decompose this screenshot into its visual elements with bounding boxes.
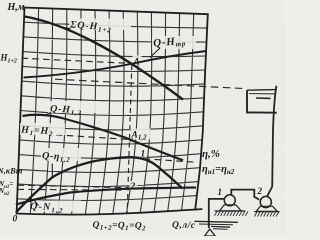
dashed level H1+2 to point A (22, 58, 131, 63)
foot valve / strainer triangle (205, 229, 216, 236)
subtle scan noise overlay (0, 0, 1, 1)
dashed level Nn2 (18, 188, 126, 191)
pipe pump1 to pump2 (bridge) (231, 190, 259, 200)
curve sum Q-H1+2 (combined head) (25, 17, 183, 100)
curve Q-N1,2 (power) (16, 188, 196, 205)
pump 1 ground hatching (214, 211, 248, 216)
lower reservoir water surface lines (195, 221, 239, 222)
pump 1 pedestal (220, 205, 242, 211)
plot border / axes (17, 8, 208, 215)
pointer to Q-Htr label (150, 48, 160, 58)
pump 1 circle (224, 195, 235, 206)
pump 2 pedestal (256, 206, 277, 211)
suction pipe from reservoir to pump 1 (209, 199, 225, 228)
dashed level H1=H2 to A1,2 (56, 135, 129, 140)
delivery riser pipe (267, 86, 276, 196)
pointer to Q-H1,2 label (45, 112, 52, 116)
dashed level Nn1 (18, 185, 129, 188)
dashed line already drawn; upper tank (247, 90, 277, 113)
pointer to sum curve label (60, 27, 71, 29)
curve Q-Htr (pipeline resistance) (24, 51, 207, 78)
pump 2 circle (260, 196, 271, 207)
pointer to Q-eta label (51, 164, 53, 177)
pump 2 ground hatching (254, 212, 278, 217)
pump 2 ground line (254, 211, 279, 213)
dashed static-head line to upper tank (55, 79, 246, 88)
curve Q-eta1,2 (efficiency) (16, 157, 183, 212)
dashed vertical from A to Q axis (127, 65, 132, 213)
pointer to Q-N label (35, 200, 39, 206)
tank water level lines (247, 89, 277, 92)
pump 1 ground line (215, 210, 246, 212)
label halos (scan white-out behind lettering) (69, 19, 131, 31)
dashed level from point 1 to eta axis (133, 158, 197, 162)
tick under A1,2 label (130, 139, 133, 142)
curve Q-H1,2 (single pump head) (23, 115, 184, 161)
